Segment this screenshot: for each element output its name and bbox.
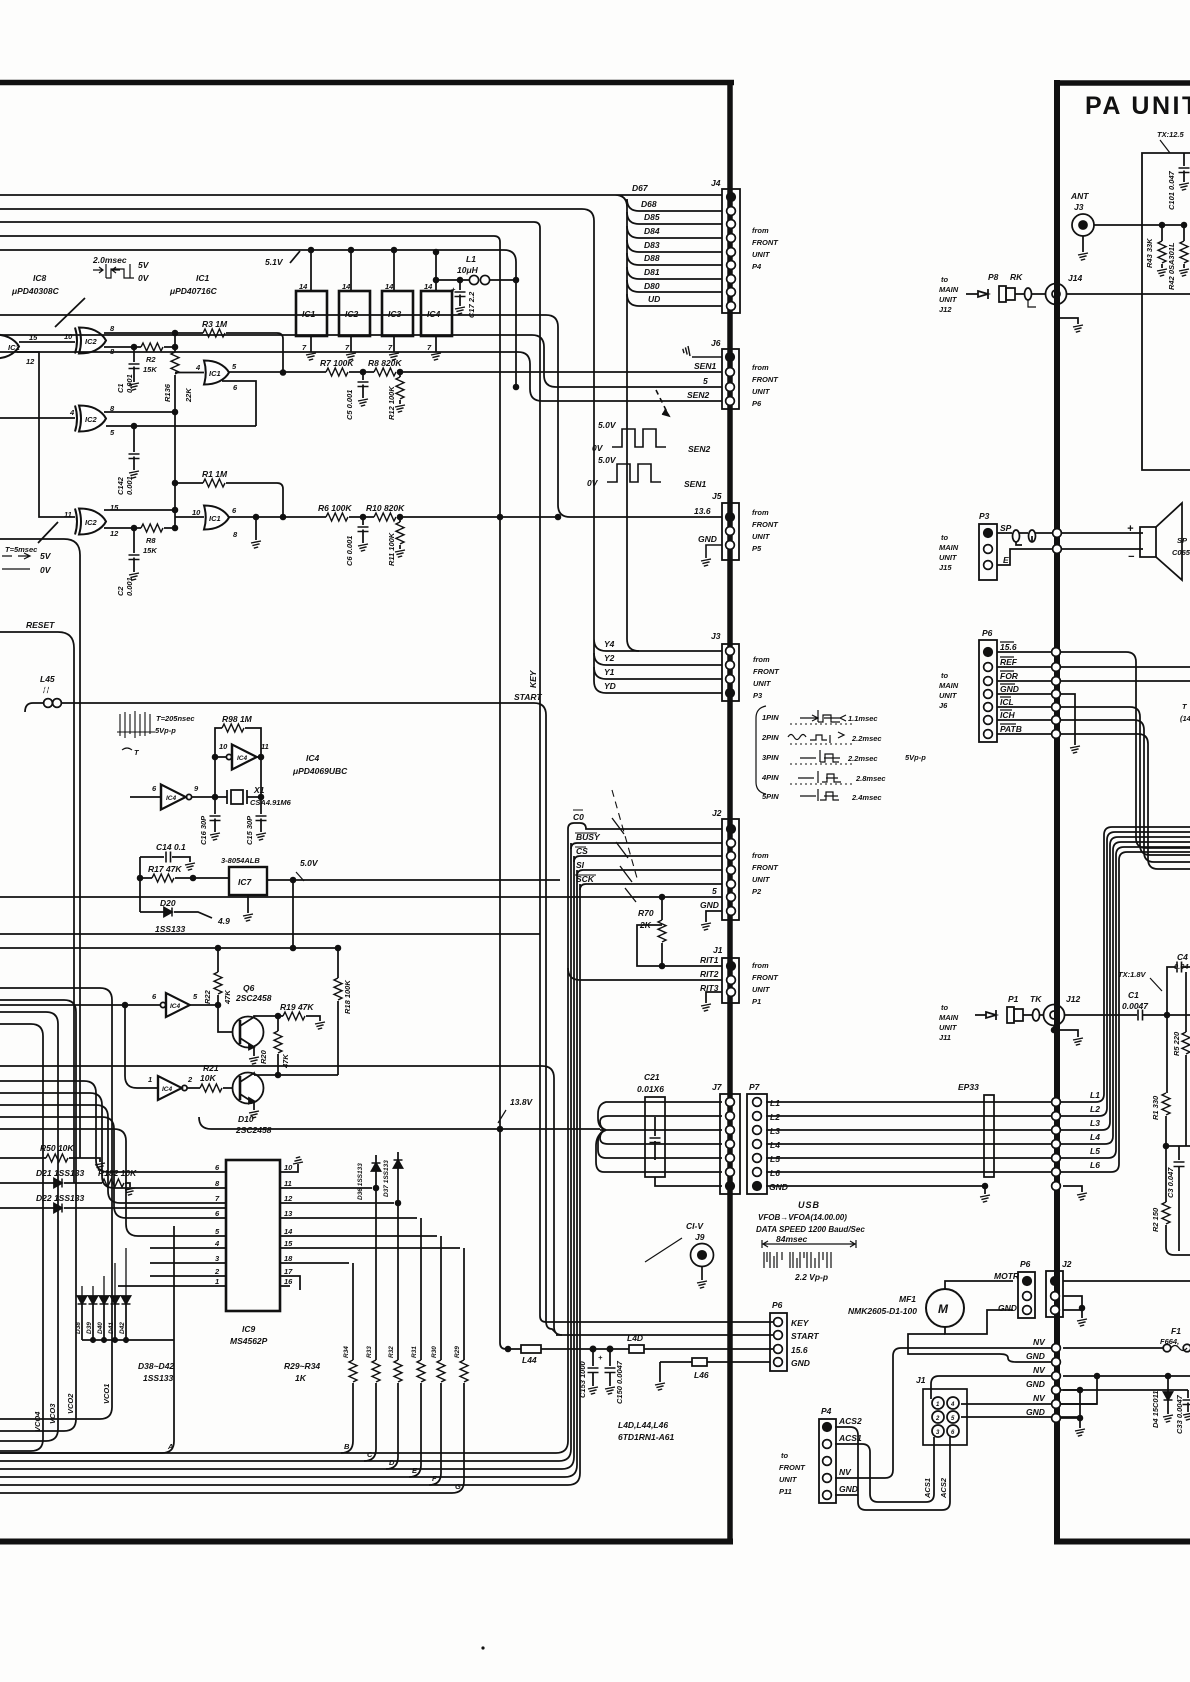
- capacitor C3 0.047: [1178, 1146, 1180, 1251]
- svg-text:RIT1: RIT1: [700, 955, 719, 965]
- resistor R1 1M: [175, 482, 203, 484]
- inverter IC4 (1-2): [158, 1076, 182, 1100]
- svg-text:REF: REF: [1000, 657, 1018, 667]
- svg-text:L3: L3: [770, 1126, 780, 1136]
- svg-text:D80: D80: [644, 281, 660, 291]
- svg-text:L4: L4: [1090, 1132, 1100, 1142]
- svg-text:L3: L3: [1090, 1118, 1100, 1128]
- svg-text:C142: C142: [116, 476, 125, 495]
- svg-text:IC7: IC7: [238, 877, 253, 887]
- svg-text:IC2: IC2: [85, 518, 98, 527]
- svg-text:VCO2: VCO2: [66, 1393, 75, 1414]
- svg-text:SP: SP: [1177, 536, 1188, 545]
- svg-text:GND: GND: [698, 534, 717, 544]
- svg-text:4.9: 4.9: [217, 916, 230, 926]
- svg-text:UNIT: UNIT: [752, 532, 771, 541]
- svg-text:1SS133: 1SS133: [155, 924, 186, 934]
- svg-text:13.8V: 13.8V: [510, 1097, 534, 1107]
- CPU callout box top-left with waveform: [0, 539, 80, 1158]
- node column x175 with R136: [174, 333, 176, 517]
- svg-text:17: 17: [284, 1267, 293, 1276]
- svg-text:G: G: [455, 1482, 461, 1491]
- trunk wire Y2: [594, 645, 722, 665]
- PA UNIT border frame left: [1054, 80, 1060, 1544]
- svg-text:ICL: ICL: [1000, 697, 1014, 707]
- svg-text:to: to: [941, 671, 948, 680]
- svg-text:P4: P4: [752, 262, 762, 271]
- svg-text:C1: C1: [1128, 990, 1139, 1000]
- IC4 box: [421, 291, 452, 336]
- svg-text:ACS1: ACS1: [923, 1478, 932, 1499]
- resistor R6 100K: [326, 513, 348, 521]
- svg-text:CI-V: CI-V: [686, 1221, 704, 1231]
- svg-text:R18 100K: R18 100K: [343, 980, 352, 1014]
- USB annotation: [756, 1200, 865, 1234]
- resistor column R33: [375, 1188, 377, 1360]
- P6 PA wires across border: [997, 652, 1190, 848]
- svg-text:+: +: [451, 285, 456, 294]
- capacitor C6 0.001: [361, 515, 366, 520]
- svg-text:TX:1.8V: TX:1.8V: [1118, 970, 1147, 979]
- connector P4: [819, 1419, 836, 1503]
- svg-text:MOTR: MOTR: [994, 1271, 1020, 1281]
- svg-text:14: 14: [284, 1227, 293, 1236]
- bus labels J4: [632, 183, 660, 304]
- capacitor C1 0.001: [133, 347, 135, 382]
- C0 trunk hooks into bundle: [341, 829, 568, 1453]
- connector P6 KEY: [770, 1313, 787, 1371]
- svg-text:J5: J5: [712, 491, 722, 501]
- svg-text:J6: J6: [711, 338, 721, 348]
- svg-text:5Vp-p: 5Vp-p: [155, 726, 176, 735]
- junction block J1: [923, 1389, 967, 1445]
- svg-text:P1: P1: [752, 997, 761, 1006]
- svg-text:FRONT: FRONT: [779, 1463, 806, 1472]
- inverter IC4 (6-9): [161, 785, 186, 810]
- IC8 label: [11, 273, 60, 296]
- IC1 label: [169, 273, 218, 296]
- svg-text:NMK2605-D1-100: NMK2605-D1-100: [848, 1306, 917, 1316]
- svg-text:11: 11: [64, 510, 72, 519]
- capacitor C17 2.2: [459, 280, 461, 306]
- crystal X1 CSA4.91M6: [215, 757, 261, 797]
- waveform T=205nsec: [117, 711, 155, 738]
- BUSY bus wire: [571, 843, 722, 849]
- svg-text:C065: C065: [1172, 548, 1190, 557]
- svg-text:R1 1M: R1 1M: [202, 469, 228, 479]
- svg-text:0V: 0V: [138, 273, 150, 283]
- svg-text:47K: 47K: [223, 990, 232, 1005]
- xor gate IC2 bottom: [75, 509, 106, 535]
- svg-text:10: 10: [284, 1163, 293, 1172]
- svg-text:P1: P1: [1008, 994, 1019, 1004]
- speaker SP: [1140, 527, 1156, 557]
- trunk wire YD: [594, 667, 722, 693]
- svg-text:D36 1SS133: D36 1SS133: [357, 1163, 364, 1200]
- resistor R98 1M feedback: [215, 728, 222, 757]
- svg-text:D40: D40: [97, 1322, 104, 1334]
- svg-text:GND: GND: [769, 1182, 788, 1192]
- capacitor C5 0.001: [361, 370, 366, 375]
- transistor Q10 2SC2458: [233, 1073, 264, 1104]
- svg-text:MAIN: MAIN: [939, 1013, 959, 1022]
- svg-text:IC4: IC4: [162, 1086, 173, 1093]
- svg-text:D83: D83: [644, 240, 660, 250]
- svg-text:L1: L1: [466, 254, 476, 264]
- IC2 box: [339, 291, 370, 336]
- svg-text:D84: D84: [644, 226, 660, 236]
- resistor R18 100K: [337, 948, 339, 978]
- bus wire SEN2: [0, 352, 722, 401]
- svg-text:P5: P5: [752, 544, 762, 553]
- svg-text:2.8msec: 2.8msec: [855, 774, 886, 783]
- VCO labels: [33, 1384, 111, 1432]
- svg-text:L6: L6: [770, 1168, 780, 1178]
- svg-text:F664,: F664,: [1160, 1337, 1179, 1346]
- svg-text:E: E: [1003, 555, 1009, 565]
- svg-text:IC3: IC3: [388, 309, 402, 319]
- junction 13.8: [498, 1127, 503, 1132]
- connector J4: [722, 189, 740, 313]
- svg-text:UNIT: UNIT: [753, 679, 772, 688]
- svg-text:0V: 0V: [592, 443, 604, 453]
- svg-text:15K: 15K: [143, 365, 157, 374]
- OR1 pin6 feedback via x256: [106, 381, 256, 426]
- jack ANT J3: [1072, 214, 1094, 236]
- diode D20 1SS133: [140, 911, 164, 913]
- resistor R136 22K: [171, 352, 179, 374]
- svg-text:D38~D42: D38~D42: [138, 1361, 174, 1371]
- svg-text:C6 0.001: C6 0.001: [345, 536, 354, 566]
- waveform 2.0msec annotation: [92, 255, 150, 283]
- svg-text:2.2 Vp-p: 2.2 Vp-p: [794, 1272, 828, 1282]
- svg-text:D20: D20: [160, 898, 176, 908]
- svg-text:J1: J1: [916, 1375, 926, 1385]
- svg-text:4: 4: [195, 363, 201, 372]
- or gate IC1 bottom: [204, 506, 229, 530]
- svg-text:from: from: [752, 851, 769, 860]
- svg-text:R32: R32: [388, 1346, 395, 1358]
- svg-text:2: 2: [187, 1075, 193, 1084]
- svg-text:UNIT: UNIT: [939, 295, 958, 304]
- svg-text:GND: GND: [791, 1358, 810, 1368]
- svg-text:UNIT: UNIT: [752, 875, 771, 884]
- svg-text:A: A: [167, 1442, 173, 1451]
- connector J7: [720, 1094, 740, 1194]
- bus wire to Y4 trunk: [0, 209, 722, 651]
- or gate IC1 mid: [204, 361, 229, 385]
- SI bus wire: [577, 870, 722, 876]
- svg-text:R136: R136: [163, 383, 172, 402]
- XOR3 bottom out / R8b: [104, 527, 141, 529]
- svg-text:R182 10K: R182 10K: [98, 1168, 137, 1178]
- xor gate IC2 top: [75, 328, 106, 354]
- svg-text:10: 10: [64, 332, 73, 341]
- svg-text:GND: GND: [1000, 684, 1019, 694]
- MAIN UNIT border frame top: [0, 80, 734, 86]
- svg-text:DATA SPEED 1200 Baud/Sec: DATA SPEED 1200 Baud/Sec: [756, 1225, 865, 1234]
- svg-text:ACS2: ACS2: [939, 1477, 948, 1499]
- svg-text:0.0047: 0.0047: [1122, 1001, 1149, 1011]
- svg-text:R34: R34: [343, 1346, 350, 1358]
- svg-text:FRONT: FRONT: [752, 520, 779, 529]
- svg-text:START: START: [791, 1331, 819, 1341]
- connector P6 PA: [979, 640, 997, 742]
- svg-text:D42: D42: [119, 1322, 126, 1334]
- svg-text:R8 820K: R8 820K: [368, 358, 402, 368]
- bus wire 15.6 trunk: [0, 236, 774, 1349]
- diode D22 1SS133 row: [0, 1207, 54, 1209]
- svg-text:YD: YD: [604, 681, 616, 691]
- svg-text:15K: 15K: [143, 546, 157, 555]
- capacitor C101 0.047: [1183, 153, 1185, 182]
- 1PIN-5PIN timing table: [756, 706, 854, 801]
- svg-text:D10: D10: [238, 1114, 254, 1124]
- capacitor C2 0.001: [133, 528, 135, 572]
- svg-text:R19 47K: R19 47K: [280, 1002, 314, 1012]
- twisted pair hatch marks: [612, 818, 636, 902]
- svg-text:SEN2: SEN2: [688, 444, 710, 454]
- svg-text:ICH: ICH: [1000, 710, 1016, 720]
- resistor R12 100K vertical: [398, 370, 403, 375]
- svg-text:1: 1: [148, 1075, 152, 1084]
- svg-text:4PIN: 4PIN: [761, 773, 779, 782]
- TX-12.5 label and leader: [1160, 140, 1170, 153]
- trunk wire Y1: [594, 653, 722, 679]
- GND wire with L46: [659, 1362, 661, 1382]
- svg-text:GND: GND: [1026, 1407, 1045, 1417]
- svg-text:R29~R34: R29~R34: [284, 1361, 320, 1371]
- GND wire J2: [706, 911, 722, 922]
- svg-text:C: C: [367, 1450, 373, 1459]
- svg-text:P6: P6: [1020, 1259, 1031, 1269]
- svg-text:P8: P8: [988, 272, 999, 282]
- svg-text:R2 150: R2 150: [1151, 1207, 1160, 1232]
- svg-text:15.6: 15.6: [1000, 642, 1017, 652]
- svg-text:18: 18: [284, 1254, 293, 1263]
- resistor R50 10K row: [0, 1157, 46, 1159]
- svg-text:IC4: IC4: [170, 1003, 181, 1010]
- bus wire KEY trunk: [0, 222, 774, 1322]
- NV wire 2 to J1: [931, 1376, 1051, 1399]
- svg-text:2SC2458: 2SC2458: [235, 1125, 272, 1135]
- svg-text:R22: R22: [203, 989, 212, 1004]
- svg-text:USB: USB: [798, 1200, 820, 1210]
- data bus cascade to J4: [627, 199, 722, 211]
- svg-text:R30: R30: [431, 1346, 438, 1358]
- svg-text:L45: L45: [40, 674, 55, 684]
- svg-text:J9: J9: [695, 1232, 705, 1242]
- svg-text:FRONT: FRONT: [752, 375, 779, 384]
- svg-text:MAIN: MAIN: [939, 285, 959, 294]
- svg-text:F: F: [432, 1474, 437, 1483]
- svg-text:14: 14: [424, 282, 433, 291]
- svg-text:CSA4.91M6: CSA4.91M6: [250, 798, 292, 807]
- svg-text:MAIN: MAIN: [939, 543, 959, 552]
- wire XOR1 top out / R3 line: [104, 332, 203, 334]
- plug P8 RK to J14: [966, 289, 988, 299]
- resistor R21 10K: [200, 1084, 222, 1092]
- P4 GND stub: [835, 1494, 858, 1496]
- svg-text:J3: J3: [711, 631, 721, 641]
- svg-text:L1: L1: [770, 1098, 780, 1108]
- svg-text:P11: P11: [779, 1487, 792, 1496]
- ACS1 wire loop: [835, 1437, 934, 1502]
- svg-text:PA UNIT: PA UNIT: [1085, 92, 1190, 120]
- svg-text:to: to: [781, 1451, 788, 1460]
- wire to OR2 input: [175, 516, 204, 518]
- svg-text:C0: C0: [573, 812, 584, 822]
- resistor R22 47K: [217, 948, 219, 972]
- svg-text:μPD40716C: μPD40716C: [169, 286, 218, 296]
- capacitor C150 0.0047: [607, 1346, 612, 1351]
- svg-text:L4D,L44,L46: L4D,L44,L46: [618, 1420, 668, 1430]
- svg-text:R12 100K: R12 100K: [387, 386, 396, 420]
- svg-text:RIT2: RIT2: [700, 969, 719, 979]
- xor gate IC2 mid: [75, 406, 106, 432]
- svg-text:0V: 0V: [587, 478, 599, 488]
- resistor R8 820K: [374, 368, 396, 376]
- svg-text:10μH: 10μH: [457, 265, 479, 275]
- svg-text:D88: D88: [644, 253, 660, 263]
- svg-text:J11: J11: [939, 1033, 951, 1042]
- svg-text:1SS133: 1SS133: [143, 1373, 174, 1383]
- svg-text:X1: X1: [253, 785, 265, 795]
- capacitor C33 0.0047: [1063, 1390, 1188, 1412]
- capacitor C14 0.1: [156, 842, 186, 852]
- svg-text:Q6: Q6: [243, 983, 255, 993]
- svg-text:UNIT: UNIT: [752, 985, 771, 994]
- svg-text:L44: L44: [522, 1355, 537, 1365]
- svg-text:╎╎: ╎╎: [42, 686, 50, 694]
- XOR2 input from left edge: [0, 417, 75, 419]
- svg-text:IC1: IC1: [209, 369, 221, 378]
- svg-text:IC4: IC4: [427, 309, 441, 319]
- bead L44: [521, 1345, 541, 1353]
- bus wire 5: [0, 335, 722, 387]
- svg-text:VCO3: VCO3: [48, 1403, 57, 1424]
- svg-text:D67: D67: [632, 183, 649, 193]
- svg-text:D39: D39: [86, 1322, 93, 1334]
- resistor column R34: [352, 1263, 354, 1360]
- svg-text:SEN2: SEN2: [687, 390, 709, 400]
- svg-text:SEN1: SEN1: [684, 479, 706, 489]
- NV wire 1 with P4 loop: [835, 1348, 1051, 1478]
- svg-text:ANT: ANT: [1070, 191, 1089, 201]
- diode D37 1SS133: [397, 1152, 399, 1160]
- svg-text:J12: J12: [939, 305, 952, 314]
- svg-text:12: 12: [110, 529, 119, 538]
- resistor R17 47K: [139, 857, 141, 912]
- inverter IC4 (10-11): [226, 754, 231, 759]
- C0 wire to J2: [580, 823, 722, 829]
- resistor R42 0SA301L: [1183, 225, 1185, 241]
- svg-text:MF1: MF1: [899, 1294, 916, 1304]
- svg-text:6TD1RN1-A61: 6TD1RN1-A61: [618, 1432, 674, 1442]
- svg-text:UNIT: UNIT: [752, 387, 771, 396]
- CS bus wire: [574, 856, 722, 862]
- svg-text:Y2: Y2: [604, 653, 615, 663]
- svg-text:R5 220: R5 220: [1172, 1031, 1181, 1056]
- svg-text:from: from: [752, 508, 769, 517]
- resistor R2 150: [1165, 1146, 1167, 1202]
- svg-text:L5: L5: [770, 1154, 780, 1164]
- junction 13.6: [498, 515, 503, 520]
- svg-text:P6: P6: [752, 399, 762, 408]
- wire to OR1 input: [175, 372, 204, 374]
- resistor R20 47K: [277, 1016, 279, 1031]
- bottom bus bundle: [0, 1453, 452, 1493]
- svg-text:R11 100K: R11 100K: [387, 532, 396, 566]
- 13.8V line: [199, 1117, 600, 1129]
- svg-text:0.001: 0.001: [125, 374, 134, 393]
- svg-text:RESET: RESET: [26, 620, 55, 630]
- GND wire 1 jog: [908, 1334, 1051, 1362]
- svg-text:C153 1000: C153 1000: [578, 1360, 587, 1398]
- svg-text:C17 2.2: C17 2.2: [467, 291, 476, 318]
- resistor R11 100K vertical: [398, 515, 403, 520]
- RESET wire: [0, 632, 74, 1183]
- svg-text:12: 12: [284, 1194, 293, 1203]
- svg-text:START: START: [514, 692, 542, 702]
- svg-text:IC4: IC4: [237, 755, 248, 762]
- connector J1: [722, 958, 739, 1003]
- capacitor C153 1000: [590, 1346, 595, 1351]
- svg-text:0.01X6: 0.01X6: [637, 1084, 664, 1094]
- svg-text:5: 5: [712, 886, 717, 896]
- wire L45 to START trunk: [62, 703, 556, 1333]
- svg-text:R6 100K: R6 100K: [318, 503, 352, 513]
- SEN2 SEN1 waveform annotation: [607, 390, 669, 482]
- svg-text:F1: F1: [1171, 1326, 1181, 1336]
- svg-text:2.4msec: 2.4msec: [851, 793, 882, 802]
- RIT2 wire: [568, 968, 722, 980]
- wire pin12 down to XOR3: [17, 352, 75, 517]
- IC9 output lines to resistor columns: [280, 1188, 460, 1290]
- resistor R19 47K: [254, 1016, 283, 1017]
- 5 wire J2: [0, 896, 722, 898]
- leader line to XOR3: [38, 522, 58, 543]
- connector J5: [722, 503, 739, 560]
- svg-text:0.04: 0.04: [1174, 962, 1189, 971]
- connector J3: [722, 644, 739, 701]
- svg-text:5.1V: 5.1V: [265, 257, 284, 267]
- svg-text:5V: 5V: [138, 260, 150, 270]
- svg-text:12: 12: [26, 357, 35, 366]
- svg-text:μPD4069UBC: μPD4069UBC: [292, 766, 348, 776]
- connector J2 PA: [1046, 1271, 1063, 1317]
- svg-text:J12: J12: [1066, 994, 1080, 1004]
- svg-text:5.0V: 5.0V: [300, 858, 319, 868]
- svg-text:M: M: [938, 1302, 949, 1316]
- svg-text:84msec: 84msec: [776, 1234, 807, 1244]
- svg-text:C1: C1: [116, 383, 125, 393]
- svg-text:NV: NV: [1033, 1365, 1046, 1375]
- svg-text:14: 14: [385, 282, 394, 291]
- svg-text:UNIT: UNIT: [939, 553, 958, 562]
- J2 wires: [1063, 1280, 1190, 1282]
- svg-text:IC4: IC4: [166, 795, 177, 802]
- svg-text:NV: NV: [1033, 1393, 1046, 1403]
- svg-text:+: +: [1127, 523, 1134, 535]
- svg-text:2.2msec: 2.2msec: [847, 754, 878, 763]
- svg-text:VCO1: VCO1: [102, 1384, 111, 1404]
- svg-text:FRONT: FRONT: [752, 238, 779, 247]
- svg-text:PATB: PATB: [1000, 724, 1022, 734]
- svg-text:from: from: [752, 363, 769, 372]
- svg-text:IC1: IC1: [302, 309, 316, 319]
- svg-text:J3: J3: [1074, 202, 1084, 212]
